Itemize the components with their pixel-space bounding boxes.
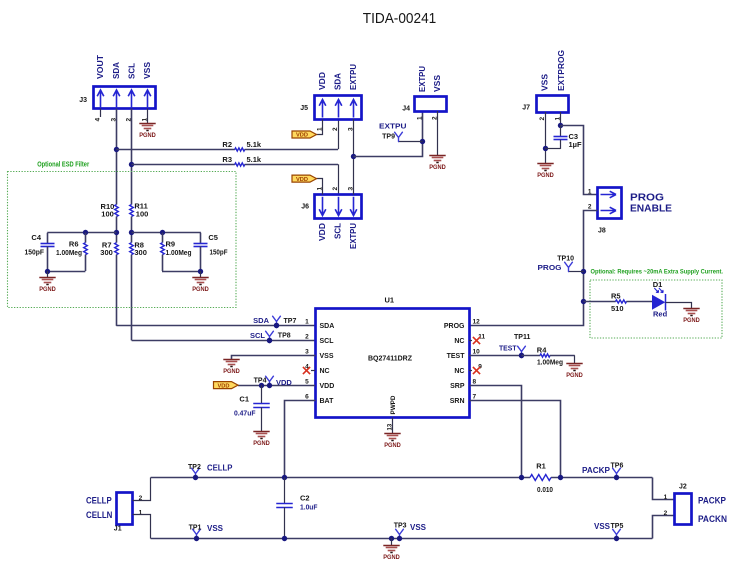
- svg-text:R6: R6: [69, 239, 79, 248]
- svg-text:10: 10: [473, 349, 481, 356]
- svg-text:510: 510: [611, 304, 624, 313]
- svg-text:SDA: SDA: [334, 73, 343, 90]
- svg-text:R1: R1: [536, 461, 546, 470]
- svg-text:EXTPU: EXTPU: [349, 64, 358, 90]
- svg-text:U1: U1: [385, 296, 395, 305]
- svg-text:1: 1: [139, 510, 143, 517]
- svg-text:SCL: SCL: [250, 331, 265, 340]
- wire R9 bottom to C5 bottom: [162, 271, 201, 273]
- LED D1: [652, 295, 665, 310]
- svg-text:CELLP: CELLP: [86, 495, 112, 505]
- svg-text:PROG: PROG: [630, 192, 664, 203]
- wire TP9 to EXTPU line: [398, 141, 423, 143]
- svg-text:PGND: PGND: [192, 286, 209, 293]
- J3 pin 4 stub: [100, 109, 102, 118]
- resistor R4 1.00Meg: [522, 355, 541, 357]
- testpoint TP5: [613, 529, 621, 538]
- ground PGND left of ESD filter: [47, 271, 49, 278]
- svg-text:TP4: TP4: [254, 377, 267, 384]
- svg-text:5: 5: [305, 379, 309, 386]
- node SDA junction R2: [114, 147, 119, 152]
- svg-text:R3: R3: [222, 155, 232, 164]
- connector J8: [598, 188, 622, 219]
- svg-text:VSS: VSS: [594, 522, 611, 531]
- svg-text:1.00Meg: 1.00Meg: [166, 248, 192, 257]
- connector J3: [94, 87, 156, 109]
- node C2 VSS junction: [282, 536, 287, 541]
- svg-text:SCL: SCL: [127, 63, 136, 79]
- resistor R9: [160, 230, 165, 235]
- svg-text:2: 2: [305, 334, 309, 341]
- ground PGND at C1: [253, 431, 269, 433]
- power flag VDD at U1: [214, 382, 239, 389]
- power flag VDD at J6: [292, 175, 317, 182]
- svg-text:3: 3: [305, 349, 309, 356]
- node R5 junction: [581, 299, 586, 304]
- dashed box optional LED: [590, 280, 722, 338]
- node C4 R6 ground junction: [45, 269, 50, 274]
- svg-text:PGND: PGND: [537, 172, 554, 179]
- svg-text:PGND: PGND: [683, 317, 700, 324]
- J7 pin 1 stub down: [560, 112, 562, 126]
- svg-text:PACKP: PACKP: [582, 466, 611, 475]
- testpoint TP11: [518, 346, 526, 355]
- resistor R8: [130, 243, 134, 255]
- svg-text:100: 100: [101, 209, 114, 218]
- svg-text:1: 1: [664, 494, 668, 501]
- svg-text:TIDA-00241: TIDA-00241: [363, 10, 437, 27]
- J7 pin 2 stub down: [545, 112, 547, 164]
- svg-text:SCL: SCL: [334, 223, 343, 239]
- testpoint TP6: [613, 468, 621, 477]
- connector J1: [117, 493, 133, 525]
- svg-text:2: 2: [588, 204, 592, 211]
- svg-text:TP1: TP1: [189, 525, 202, 532]
- svg-text:1µF: 1µF: [569, 140, 582, 149]
- node C1 junction: [259, 383, 264, 388]
- wire SRP U1 pin 8 down to R1: [470, 386, 522, 478]
- svg-text:R4: R4: [537, 345, 547, 354]
- capacitor C2 1.0uF: [284, 478, 286, 504]
- wire SDA vertical from J3 pin 3: [116, 109, 118, 205]
- J6 pin 1 stub to VDD flag: [317, 179, 323, 195]
- svg-text:1: 1: [305, 319, 309, 326]
- svg-text:TP8: TP8: [278, 333, 291, 340]
- ground PGND at J7 pin 2: [537, 163, 553, 165]
- wire SRN U1 pin 7 down to R1: [470, 401, 561, 478]
- svg-text:2: 2: [332, 127, 339, 131]
- svg-text:NC: NC: [454, 368, 464, 375]
- capacitor C1 0.47uF: [261, 385, 263, 404]
- svg-text:5.1k: 5.1k: [247, 140, 262, 149]
- node C5 R9 ground junction: [198, 269, 203, 274]
- wire R4 to ground: [574, 355, 576, 363]
- svg-text:100: 100: [136, 209, 149, 218]
- svg-text:SDA: SDA: [253, 316, 269, 325]
- svg-text:VDD: VDD: [296, 133, 308, 139]
- connector J7: [537, 96, 569, 113]
- svg-text:BQ27411DRZ: BQ27411DRZ: [368, 353, 412, 362]
- node EXTPU junction: [351, 154, 356, 159]
- svg-text:150pF: 150pF: [210, 248, 228, 257]
- wire R6 bottom to C4 bottom: [47, 271, 85, 273]
- svg-text:PGND: PGND: [39, 286, 56, 293]
- wire VSS to J2 pin 2: [653, 516, 675, 539]
- svg-text:J3: J3: [79, 97, 87, 104]
- svg-text:R5: R5: [611, 292, 621, 301]
- connector J6: [315, 195, 362, 219]
- svg-text:J7: J7: [522, 105, 530, 112]
- testpoint TP1: [193, 529, 201, 538]
- svg-text:TP5: TP5: [611, 523, 624, 530]
- dashed box optional ESD filter: [8, 172, 237, 308]
- node TP7 dot: [274, 323, 279, 328]
- svg-text:TP6: TP6: [611, 463, 624, 470]
- testpoint TP7: [273, 316, 281, 325]
- J1 pin 1 stub to VSS rail: [133, 515, 151, 539]
- svg-text:VSS: VSS: [433, 75, 442, 92]
- svg-text:CELLP: CELLP: [207, 463, 233, 472]
- svg-text:13: 13: [388, 423, 394, 430]
- wire EXTPROG to J8 pin 1: [561, 126, 598, 195]
- ground PGND at U1 VSS: [223, 359, 239, 361]
- node TP10 junction: [581, 269, 586, 274]
- resistor R2 5.1k: [116, 149, 235, 151]
- svg-text:J8: J8: [598, 227, 606, 234]
- svg-text:PGND: PGND: [139, 132, 156, 139]
- svg-text:TEST: TEST: [447, 353, 466, 360]
- svg-text:5.1k: 5.1k: [247, 155, 262, 164]
- svg-text:D1: D1: [653, 280, 663, 289]
- svg-text:0.010: 0.010: [537, 485, 553, 494]
- svg-text:J5: J5: [300, 105, 308, 112]
- svg-text:VSS: VSS: [207, 524, 224, 533]
- wire CELLP PACKP rail: [151, 477, 530, 479]
- svg-text:PGND: PGND: [253, 440, 270, 447]
- svg-text:VSS: VSS: [320, 353, 334, 360]
- op-amp U1 BQ27411DRZ IC body: [316, 309, 470, 418]
- wire TEST U1 pin 10: [469, 355, 522, 357]
- testpoint TP2: [192, 468, 200, 477]
- resistor R5 510: [584, 301, 616, 303]
- svg-text:Optional ESD Filter: Optional ESD Filter: [37, 162, 89, 169]
- svg-text:12: 12: [473, 319, 481, 326]
- svg-text:6: 6: [305, 394, 309, 401]
- svg-text:300: 300: [100, 248, 113, 257]
- svg-text:VSS: VSS: [541, 74, 550, 91]
- wire BAT U1 pin 6 down to CELLP rail: [285, 401, 316, 478]
- svg-text:TEST: TEST: [499, 344, 517, 353]
- svg-text:VOUT: VOUT: [96, 55, 105, 79]
- svg-text:TP11: TP11: [514, 334, 530, 341]
- svg-text:PGND: PGND: [429, 164, 446, 171]
- svg-text:R2: R2: [222, 140, 232, 149]
- svg-text:1.00Meg: 1.00Meg: [537, 357, 563, 366]
- svg-text:1: 1: [588, 188, 592, 195]
- svg-text:C5: C5: [208, 233, 218, 242]
- svg-text:R9: R9: [166, 239, 176, 248]
- resistor R3 5.1k: [132, 164, 235, 166]
- testpoint TP4: [266, 376, 274, 385]
- svg-text:SRP: SRP: [450, 383, 465, 390]
- svg-text:4: 4: [95, 118, 102, 122]
- wire SCL between R11 and R8: [131, 217, 133, 243]
- svg-text:EXTPROG: EXTPROG: [557, 50, 566, 91]
- capacitor C4: [47, 233, 49, 243]
- svg-text:C2: C2: [300, 493, 310, 502]
- svg-text:EXTPU: EXTPU: [349, 223, 358, 249]
- svg-text:PROG: PROG: [538, 263, 562, 272]
- wire EXTPU vertical J5 pin 3 to J6 pin 3: [353, 119, 355, 195]
- svg-text:VSS: VSS: [410, 523, 427, 532]
- svg-text:VDD: VDD: [318, 72, 327, 90]
- node SCL junction R3: [129, 162, 134, 167]
- ground PGND right of ESD filter: [200, 271, 202, 278]
- node TP8 dot: [267, 338, 272, 343]
- svg-text:C1: C1: [239, 395, 249, 404]
- wire SDA between R10 and R7: [116, 217, 118, 243]
- svg-text:TP3: TP3: [394, 522, 407, 529]
- wire SCL vertical from J3 pin 2: [131, 109, 133, 205]
- resistor R11: [130, 205, 134, 217]
- resistor R1 0.010: [530, 475, 551, 481]
- svg-text:NC: NC: [454, 338, 464, 345]
- svg-text:TP10: TP10: [557, 256, 574, 263]
- svg-text:PROG: PROG: [444, 323, 465, 330]
- svg-text:VDD: VDD: [318, 223, 327, 241]
- U1 pin 11 NC stub with no-connect X: [469, 340, 472, 342]
- node C3 ground junction: [543, 146, 548, 151]
- node BAT CELLP junction: [282, 475, 287, 480]
- svg-text:SCL: SCL: [320, 338, 335, 345]
- resistor R6: [83, 230, 88, 235]
- power flag VDD at J5: [292, 131, 317, 138]
- svg-text:VDD: VDD: [320, 383, 335, 390]
- ground PGND at J3 pin 1: [139, 123, 155, 125]
- svg-text:C4: C4: [31, 233, 41, 242]
- node TP9 junction on J4 pin 1: [420, 139, 425, 144]
- svg-text:0.47uF: 0.47uF: [234, 409, 256, 418]
- svg-text:1: 1: [417, 116, 424, 120]
- capacitor C3 1uF: [560, 126, 562, 137]
- svg-text:PACKN: PACKN: [698, 514, 727, 524]
- testpoint TP9: [395, 132, 403, 141]
- svg-text:VDD: VDD: [217, 383, 229, 389]
- svg-text:VDD: VDD: [296, 177, 308, 183]
- svg-text:PACKP: PACKP: [698, 495, 726, 505]
- svg-text:TP9: TP9: [382, 134, 395, 141]
- connector J4: [415, 97, 447, 112]
- svg-text:Red: Red: [653, 310, 668, 319]
- svg-text:J4: J4: [402, 105, 410, 112]
- svg-text:PGND: PGND: [566, 372, 583, 379]
- svg-text:EXTPU: EXTPU: [418, 66, 427, 92]
- svg-text:1.0uF: 1.0uF: [300, 503, 318, 512]
- wire TP10 stub: [568, 271, 584, 273]
- svg-text:SDA: SDA: [112, 62, 121, 79]
- svg-text:NC: NC: [320, 368, 330, 375]
- svg-text:J6: J6: [301, 204, 309, 211]
- node TP3 ground junction: [389, 536, 394, 541]
- svg-text:SRN: SRN: [450, 398, 465, 405]
- svg-text:PWPD: PWPD: [390, 395, 397, 414]
- wire PROG from J8 pin 2 down to U1 pin 12: [470, 211, 598, 326]
- svg-text:VSS: VSS: [143, 62, 152, 79]
- svg-text:7: 7: [473, 394, 477, 401]
- J1 pin 2 stub to CELLP rail: [133, 478, 151, 501]
- node EXTPROG junction: [558, 123, 563, 128]
- J5 pin 1 stub to VDD flag: [317, 120, 323, 135]
- svg-text:2: 2: [332, 187, 339, 191]
- node TP11 junction: [519, 353, 524, 358]
- wire PACKP to J2 pin 1: [653, 478, 675, 500]
- svg-text:300: 300: [134, 248, 147, 257]
- svg-text:PGND: PGND: [383, 554, 400, 561]
- wire SDA below R7 to U1 pin 1: [116, 255, 118, 326]
- connector J2: [675, 494, 692, 525]
- svg-text:SDA: SDA: [320, 323, 335, 330]
- wire ESD right bus: [132, 232, 201, 234]
- wire VDD to U1 pin 5: [238, 385, 315, 387]
- ground PGND at D1: [683, 308, 699, 310]
- wire SCL below R8 to U1 pin 2: [131, 255, 133, 341]
- testpoint TP3: [396, 529, 404, 538]
- svg-text:EXTPU: EXTPU: [379, 121, 407, 130]
- U1 pin 9 NC stub with no-connect X: [469, 370, 472, 372]
- svg-text:J1: J1: [114, 526, 122, 533]
- svg-text:TP7: TP7: [284, 318, 297, 325]
- ground PGND at J4 pin 2: [429, 155, 445, 157]
- testpoint TP8: [266, 331, 274, 340]
- svg-text:2: 2: [664, 510, 668, 517]
- wire VSS U1 pin 3 to ground: [232, 356, 316, 360]
- capacitor C5: [200, 233, 202, 243]
- wire EXTPU to J4: [354, 112, 423, 157]
- svg-text:BAT: BAT: [320, 398, 335, 405]
- svg-text:Optional: Requires ~20mA Extra: Optional: Requires ~20mA Extra Supply Cu…: [591, 269, 724, 276]
- node SCL junction ESD bus: [129, 230, 134, 235]
- wire R2 up to J5 pin 2: [338, 119, 340, 149]
- J4 pin 2 stub to ground: [437, 111, 439, 155]
- node SDA junction ESD bus: [114, 230, 119, 235]
- svg-text:8: 8: [473, 379, 477, 386]
- wire D1 cathode to ground: [666, 303, 692, 309]
- ground PGND at U1 PWPD: [384, 433, 400, 435]
- resistor R10: [115, 205, 119, 217]
- svg-text:1.00Meg: 1.00Meg: [56, 248, 82, 257]
- node R1 left junction SRP: [519, 475, 524, 480]
- connector J5: [315, 96, 362, 120]
- wire R3 down to J6 pin 2: [338, 164, 340, 194]
- svg-text:VDD: VDD: [276, 378, 292, 387]
- U1 pin 4 NC stub with no-connect X: [311, 370, 315, 372]
- svg-text:ENABLE: ENABLE: [630, 204, 672, 215]
- testpoint TP10: [565, 262, 573, 271]
- svg-text:PGND: PGND: [384, 442, 401, 449]
- J3 pin 1 stub: [147, 109, 149, 124]
- ground PGND at R4: [566, 363, 582, 365]
- svg-text:CELLN: CELLN: [86, 510, 112, 520]
- svg-text:J2: J2: [679, 483, 687, 490]
- ground PGND at TP3: [391, 538, 393, 546]
- node R1 right junction SRN: [558, 475, 563, 480]
- resistor R7: [115, 243, 119, 255]
- svg-text:PGND: PGND: [223, 368, 240, 375]
- wire VSS bottom rail: [151, 538, 653, 540]
- svg-text:TP2: TP2: [188, 464, 201, 471]
- wire ESD left bus: [47, 232, 116, 234]
- svg-text:150pF: 150pF: [25, 248, 45, 257]
